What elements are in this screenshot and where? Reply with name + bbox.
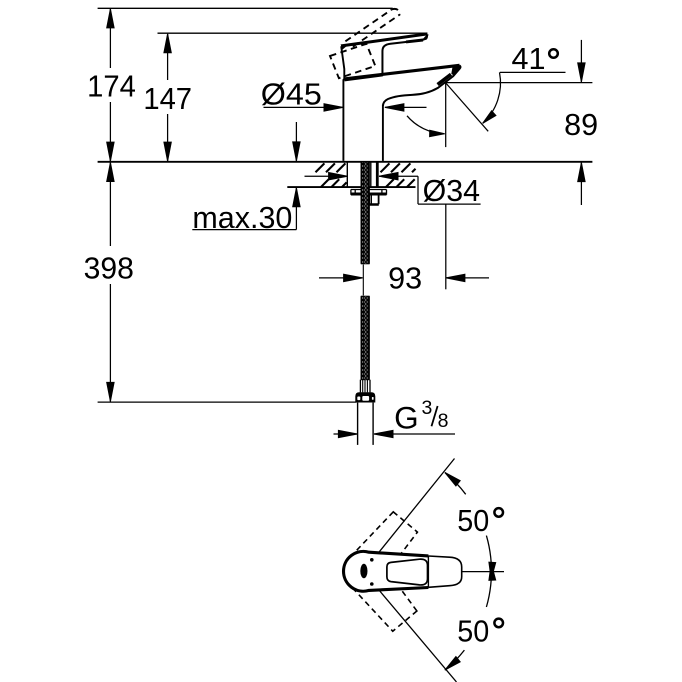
svg-text:Ø34: Ø34 [423,174,480,208]
svg-text:8: 8 [438,410,449,432]
svg-text:50: 50 [457,615,489,649]
svg-text:G: G [394,400,419,436]
svg-text:Ø45: Ø45 [261,77,322,111]
svg-text:50: 50 [457,504,489,538]
svg-text:147: 147 [143,82,192,116]
svg-text:398: 398 [84,252,134,286]
svg-text:89: 89 [564,108,598,142]
svg-text:174: 174 [87,70,136,104]
svg-text:41: 41 [512,42,546,76]
svg-text:3: 3 [421,397,432,419]
svg-text:max.30: max.30 [192,201,292,235]
svg-text:93: 93 [388,262,422,296]
